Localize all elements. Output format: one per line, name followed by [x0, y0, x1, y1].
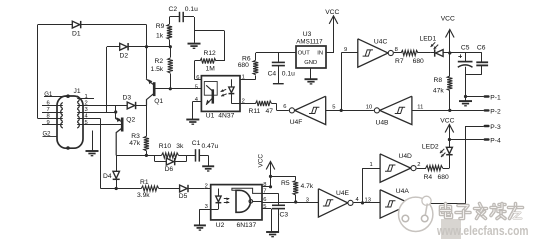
svg-text:U1: U1	[206, 113, 215, 120]
svg-text:8: 8	[263, 182, 266, 188]
svg-text:680: 680	[238, 62, 249, 69]
resistor R1	[137, 179, 180, 199]
pin 3 U2	[200, 204, 211, 225]
svg-text:R3: R3	[131, 133, 140, 140]
svg-text:R5: R5	[281, 180, 290, 187]
resistor R6	[238, 53, 259, 75]
svg-text:4.7k: 4.7k	[301, 183, 314, 190]
rail U4B out to U4C/U4F	[340, 53, 343, 112]
svg-text:C4: C4	[268, 70, 277, 77]
svg-text:OUT: OUT	[298, 50, 311, 56]
svg-text:VCC: VCC	[441, 16, 455, 23]
svg-text:2: 2	[242, 99, 245, 105]
resistor R10	[159, 143, 186, 158]
svg-text:13: 13	[365, 197, 371, 203]
pin 6 U2 row to U4E	[262, 197, 318, 204]
svg-text:AMS1117: AMS1117	[296, 39, 323, 46]
capacitor C6	[466, 44, 489, 74]
svg-text:Q1: Q1	[154, 98, 163, 105]
svg-text:6: 6	[196, 75, 199, 81]
wire R12 right riser	[194, 31, 225, 62]
resistor R2	[151, 47, 173, 91]
power VCC LED2	[440, 117, 454, 141]
connector J1 right pin arcs	[77, 96, 83, 128]
power VCC LED1	[441, 16, 455, 55]
svg-text:VCC: VCC	[325, 9, 339, 16]
watermark elecfans logo	[399, 196, 529, 239]
pin 4 J1 wire down to bottom rail	[83, 114, 101, 189]
svg-text:5: 5	[85, 120, 88, 126]
ground under U1 pin4	[186, 120, 199, 125]
svg-text:3: 3	[205, 204, 208, 210]
wire Q1 base row to U1 pin5	[155, 88, 202, 90]
svg-text:P-2: P-2	[490, 108, 501, 115]
pin 8 J1	[38, 114, 57, 120]
pin 7 J1	[42, 107, 57, 113]
svg-text:9: 9	[47, 120, 50, 126]
svg-text:5: 5	[195, 84, 198, 90]
svg-text:IN: IN	[317, 50, 323, 56]
svg-text:U3: U3	[303, 31, 312, 38]
svg-text:3: 3	[306, 197, 309, 203]
svg-text:D5: D5	[179, 193, 188, 200]
svg-text:R10: R10	[159, 143, 172, 150]
resistor R11	[249, 101, 289, 115]
svg-text:VCC: VCC	[440, 117, 454, 124]
pin 2 J1 wire to D3	[83, 101, 147, 107]
terminal P-3	[466, 124, 501, 131]
label G1	[44, 92, 68, 98]
bottom rail to U2	[101, 187, 142, 190]
wire U4A out to P-3 riser	[417, 126, 466, 204]
diode D6	[155, 155, 187, 173]
svg-text:2: 2	[205, 184, 208, 190]
svg-text:3: 3	[85, 107, 88, 113]
svg-text:R8: R8	[434, 77, 443, 84]
svg-text:U4F: U4F	[290, 119, 303, 126]
ground under C1	[202, 166, 214, 171]
LED LED1	[420, 36, 450, 57]
svg-text:C2: C2	[169, 6, 178, 13]
svg-text:1k: 1k	[156, 33, 164, 40]
pin 6 U1 label	[196, 75, 199, 81]
svg-text:680: 680	[413, 58, 424, 65]
inverter U4E	[306, 189, 360, 217]
svg-text:D6: D6	[165, 166, 174, 173]
inverter U4D	[363, 153, 421, 182]
svg-text:680: 680	[438, 174, 449, 181]
wire C2 to ground	[194, 17, 196, 43]
diode D3	[123, 95, 136, 110]
svg-text:11: 11	[417, 105, 423, 111]
svg-text:R7: R7	[395, 58, 404, 65]
svg-text:2: 2	[417, 162, 420, 168]
capacitor C1	[192, 140, 219, 166]
svg-text:U4E: U4E	[336, 190, 350, 197]
svg-text:LED2: LED2	[422, 143, 439, 150]
ground under U2 pin3	[194, 225, 206, 230]
svg-text:1.5k: 1.5k	[151, 66, 164, 73]
pin 5 U2 to ground	[262, 204, 272, 232]
U2 internal gate	[232, 188, 262, 212]
svg-text:G1: G1	[44, 92, 53, 98]
svg-text:0.1u: 0.1u	[282, 70, 295, 77]
inverter U4A	[380, 188, 416, 218]
ground under C2	[188, 44, 201, 49]
svg-text:47k: 47k	[433, 87, 444, 94]
svg-text:R4: R4	[424, 174, 433, 181]
resistor R9	[156, 17, 172, 47]
wire VCC row to C5/C6	[450, 52, 482, 54]
svg-text:6: 6	[47, 101, 50, 107]
ground under C3/pin5	[266, 232, 279, 237]
pin 8 U2 to VCC	[262, 182, 272, 188]
wire R12 to U1 pin6	[194, 61, 201, 80]
svg-text:P-1: P-1	[490, 94, 501, 101]
svg-text:P-4: P-4	[490, 137, 501, 144]
svg-text:VCC: VCC	[258, 154, 265, 168]
svg-text:Q2: Q2	[126, 117, 135, 124]
optocoupler U2 box	[211, 185, 262, 229]
diode D2	[120, 43, 129, 59]
diode D1	[64, 21, 81, 38]
terminal P-1	[464, 94, 501, 101]
inverter U4B	[341, 96, 423, 126]
wire D2 branch	[107, 47, 147, 113]
svg-text:P-3: P-3	[490, 124, 501, 131]
wire Q2 emitter row	[116, 154, 161, 157]
svg-text:47: 47	[266, 108, 274, 115]
power VCC U2	[258, 154, 275, 187]
wire OUT row	[256, 52, 296, 54]
svg-text:8: 8	[47, 114, 50, 120]
svg-text:10: 10	[366, 105, 372, 111]
wire D1 rail drop to node row	[146, 25, 148, 47]
capacitor C2	[169, 6, 199, 22]
resistor R3	[129, 133, 149, 156]
svg-text:U4D: U4D	[399, 153, 413, 160]
ground under C5	[459, 97, 472, 106]
svg-text:U4A: U4A	[396, 188, 410, 195]
svg-text:0.47u: 0.47u	[202, 143, 219, 150]
svg-text:D3: D3	[123, 95, 132, 102]
diode D4	[103, 155, 120, 188]
capacitor C4	[268, 53, 295, 84]
pin 6 J1	[42, 101, 57, 107]
diode D5	[179, 185, 205, 200]
transistor Q1	[147, 47, 164, 106]
resistor R8	[433, 53, 453, 112]
node row R9/R2/D2/Q1	[145, 45, 172, 48]
svg-text:5: 5	[263, 204, 266, 210]
svg-text:D1: D1	[72, 31, 81, 38]
terminal P-4	[449, 137, 501, 144]
svg-text:R2: R2	[155, 58, 164, 65]
svg-text:3k: 3k	[176, 143, 184, 150]
capacitor C5	[458, 44, 473, 96]
svg-text:LED1: LED1	[420, 36, 437, 43]
svg-text:R12: R12	[204, 50, 217, 57]
svg-text:R1: R1	[140, 179, 149, 186]
resistor R4	[417, 166, 450, 182]
svg-text:U2: U2	[216, 222, 225, 229]
transistor Q2	[116, 112, 136, 155]
pin 2 U2	[204, 184, 210, 190]
U1 internal LED	[221, 79, 240, 103]
connector J1 left pin arcs	[57, 103, 63, 129]
svg-text:5: 5	[332, 105, 335, 111]
wire top rail from left rail to R9 junction	[38, 25, 147, 119]
svg-text:7: 7	[263, 189, 266, 195]
LED LED2	[422, 140, 453, 169]
power VCC U3	[325, 9, 339, 53]
capacitor C3	[271, 205, 288, 231]
svg-text:4N37: 4N37	[218, 113, 234, 120]
svg-text:R11: R11	[249, 108, 261, 115]
connector J1 body	[57, 88, 83, 150]
svg-text:7: 7	[47, 107, 50, 113]
svg-text:1: 1	[242, 75, 245, 81]
svg-text:0.1u: 0.1u	[185, 6, 198, 13]
svg-text:D4: D4	[103, 173, 112, 180]
pin 1 U1 to R6	[240, 75, 256, 81]
ground J1	[86, 131, 99, 156]
svg-text:6: 6	[263, 197, 266, 203]
svg-text:9: 9	[344, 47, 347, 53]
optocoupler U1 box	[201, 76, 240, 120]
svg-text:6N137: 6N137	[237, 222, 257, 229]
svg-text:C5: C5	[461, 44, 470, 51]
svg-text:2: 2	[85, 101, 88, 107]
inverter U4F	[283, 96, 341, 126]
svg-text:1: 1	[370, 162, 373, 168]
svg-text:U4B: U4B	[376, 119, 390, 126]
pin 5 U1 label	[195, 84, 198, 90]
svg-text:C3: C3	[280, 212, 289, 219]
ground under U3	[305, 68, 318, 84]
terminal P-2 row	[412, 108, 501, 115]
pin 9 J1	[42, 120, 57, 126]
svg-text:1: 1	[85, 94, 88, 100]
pin 7 U2 to C3	[262, 189, 279, 206]
svg-text:J1: J1	[74, 88, 81, 95]
svg-text:3.9k: 3.9k	[137, 192, 150, 199]
wire U4E out node	[354, 168, 381, 204]
U2 internal LED	[211, 189, 230, 210]
regulator U3 box	[296, 31, 326, 68]
resistor R5	[271, 176, 314, 202]
pin 3 J1 wire to node	[83, 106, 117, 119]
pin 1 J1	[83, 94, 94, 100]
svg-text:47k: 47k	[129, 140, 140, 147]
U1 internal phototransistor	[204, 82, 217, 106]
svg-text:GND: GND	[304, 60, 317, 66]
wire R10 to C1	[186, 155, 195, 157]
svg-text:6: 6	[283, 104, 286, 110]
resistor R7	[394, 50, 430, 65]
pin 4 U1	[193, 97, 202, 119]
svg-text:U4C: U4C	[374, 38, 388, 45]
svg-text:C1: C1	[192, 140, 201, 147]
svg-text:1M: 1M	[206, 66, 216, 73]
svg-text:C6: C6	[477, 44, 486, 51]
svg-text:R9: R9	[156, 23, 165, 30]
pin 5 J1 wire to Q2 base	[83, 120, 121, 126]
svg-text:www.elecfans.com: www.elecfans.com	[436, 223, 528, 238]
resistor R12	[194, 50, 224, 73]
wire Q1 collector to R3	[146, 106, 148, 137]
label G2	[43, 131, 58, 137]
inverter U4C	[341, 38, 398, 67]
svg-text:D2: D2	[120, 52, 129, 59]
pin 2 U1 to R11	[240, 99, 256, 105]
